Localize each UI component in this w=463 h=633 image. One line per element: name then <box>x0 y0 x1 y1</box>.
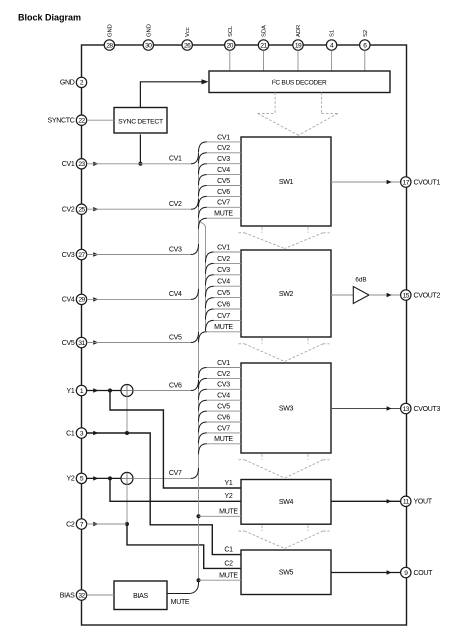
svg-text:25: 25 <box>78 207 85 214</box>
SW2 input CV1 <box>206 244 242 262</box>
svg-text:32: 32 <box>78 592 85 599</box>
SW2 input CV3 <box>206 267 242 285</box>
svg-text:SW5: SW5 <box>279 570 294 577</box>
SW3 input CV6 <box>199 414 242 432</box>
arrowhead CV2 <box>93 207 98 211</box>
wire pin stub to I2C decoder <box>297 50 299 71</box>
SW1 input CV1 <box>199 134 242 152</box>
switch block SW2 <box>241 250 331 337</box>
dashed control arrow SW3 to SW4 <box>239 454 330 478</box>
wire Y input to summer (CV6) <box>87 390 121 392</box>
pin 31 CV5 (left) <box>62 337 87 347</box>
wire Y input to summer (CV7) <box>87 477 121 479</box>
svg-text:20: 20 <box>227 42 234 49</box>
switch block SW5 <box>241 550 331 595</box>
pin 7 C2 (left) <box>66 519 87 529</box>
arrowhead CV5 <box>93 340 98 344</box>
svg-text:30: 30 <box>145 42 152 49</box>
wire summer2 to C2 line <box>126 484 128 524</box>
arrowhead C1 <box>93 431 98 435</box>
svg-text:Block Diagram: Block Diagram <box>18 13 81 23</box>
svg-text:28: 28 <box>106 42 113 49</box>
wire SYNCTC to sync detect <box>87 119 114 121</box>
wire pin stub to I2C decoder <box>331 50 333 71</box>
svg-text:22: 22 <box>78 118 85 125</box>
svg-text:CV3: CV3 <box>62 252 75 259</box>
svg-text:MUTE: MUTE <box>214 436 233 443</box>
svg-text:CV5: CV5 <box>217 178 230 185</box>
svg-text:CV6: CV6 <box>217 189 230 196</box>
svg-text:I2C BUS DECODER: I2C BUS DECODER <box>272 78 327 86</box>
svg-text:CV7: CV7 <box>217 200 230 207</box>
pin 27 CV3 (left) <box>62 249 87 259</box>
svg-text:27: 27 <box>78 252 85 259</box>
pin 26 Vcc (top) <box>182 27 192 50</box>
svg-text:GND: GND <box>146 24 152 37</box>
SW1 input MUTE <box>199 211 242 229</box>
junction Y branch <box>108 389 112 393</box>
arrowhead CV4 <box>93 297 98 301</box>
output wire to pin 9 <box>331 572 401 574</box>
svg-text:Y1: Y1 <box>67 388 75 395</box>
svg-text:Y2: Y2 <box>67 476 75 483</box>
svg-text:MUTE: MUTE <box>214 211 233 218</box>
svg-text:CV7: CV7 <box>217 313 230 320</box>
svg-text:CV2: CV2 <box>217 256 230 263</box>
arrowhead CV3 <box>93 252 98 256</box>
svg-text:BIAS: BIAS <box>60 592 75 599</box>
svg-text:SW1: SW1 <box>279 179 294 186</box>
svg-text:Y2: Y2 <box>225 493 233 500</box>
SW3 input CV4 <box>199 393 242 411</box>
svg-text:CVOUT1: CVOUT1 <box>414 179 441 186</box>
dashed control arrow SW2 to SW3 <box>239 338 330 361</box>
svg-text:CVOUT3: CVOUT3 <box>414 406 441 413</box>
pin 20 SCL (top) <box>225 25 235 50</box>
svg-text:SW2: SW2 <box>279 291 294 298</box>
SW2 input CV4 <box>206 279 242 297</box>
output wire to pin 13 <box>331 408 401 410</box>
svg-text:23: 23 <box>78 161 85 168</box>
SW1 input CV7 <box>199 200 242 218</box>
svg-text:BIAS: BIAS <box>133 593 148 600</box>
svg-text:C1: C1 <box>224 547 233 554</box>
pin 15 CVOUT2 (right) <box>401 290 441 300</box>
SW2 input CV2 <box>206 256 242 274</box>
svg-text:MUTE: MUTE <box>171 599 190 606</box>
SW2 input CV6 <box>206 301 242 319</box>
summing node <box>121 472 133 484</box>
pin 28 GND (top) <box>104 24 114 50</box>
wire pin stub to I2C decoder <box>263 50 265 71</box>
SW3 input CV5 <box>199 404 242 422</box>
SW1 input CV4 <box>199 167 242 185</box>
svg-text:CV4: CV4 <box>217 279 230 286</box>
svg-text:MUTE: MUTE <box>219 572 238 579</box>
pin 1 Y1 (left) <box>67 385 87 395</box>
svg-text:GND: GND <box>60 80 75 87</box>
pin 30 GND (top) <box>143 24 153 50</box>
SW1 input CV6 <box>199 189 242 207</box>
I2C bus decoder box <box>209 71 390 93</box>
switch block SW3 <box>241 363 331 453</box>
svg-text:6dB: 6dB <box>355 277 366 284</box>
SW2 input CV5 <box>206 290 242 308</box>
svg-text:19: 19 <box>295 42 302 49</box>
svg-text:29: 29 <box>78 297 85 304</box>
SW3 input CV7 <box>199 425 242 443</box>
wire merge curve into bus <box>191 289 199 300</box>
dashed control arrow SW4 to SW5 <box>239 525 330 548</box>
svg-text:GND: GND <box>107 24 113 37</box>
svg-text:CV1: CV1 <box>169 156 182 163</box>
dashed control arrow SW1 to SW2 <box>239 227 330 248</box>
sync detect box <box>114 108 167 134</box>
svg-text:CV5: CV5 <box>62 340 75 347</box>
pin 21 SDA (top) <box>258 25 268 50</box>
wire CV1 from pin to bus <box>87 163 192 165</box>
svg-text:CV4: CV4 <box>217 393 230 400</box>
pin 5 Y2 (left) <box>67 473 87 483</box>
svg-text:CV3: CV3 <box>217 156 230 163</box>
svg-text:S1: S1 <box>330 30 336 37</box>
svg-text:15: 15 <box>403 292 410 299</box>
arrowhead C2 <box>93 522 98 526</box>
svg-text:CV3: CV3 <box>169 246 182 253</box>
wire C2 pin line <box>87 523 127 525</box>
svg-text:CV3: CV3 <box>217 382 230 389</box>
pin 25 CV2 (left) <box>62 204 87 214</box>
output wire to pin 11 <box>331 500 401 502</box>
SW1 input CV2 <box>199 145 242 163</box>
svg-text:Vcc: Vcc <box>185 27 191 37</box>
arrowhead CV1 <box>93 162 98 166</box>
SW2 input CV7 <box>206 313 242 331</box>
pin 17 CVOUT1 (right) <box>401 177 441 187</box>
svg-text:CVOUT2: CVOUT2 <box>414 292 441 299</box>
svg-text:SYNC DETECT: SYNC DETECT <box>118 119 163 126</box>
svg-text:CV5: CV5 <box>217 404 230 411</box>
pin 6 S2 (top) <box>360 30 370 50</box>
wire sync detect to I2C decoder <box>140 82 202 108</box>
wire CV2 from pin to bus <box>87 208 192 210</box>
junction on C2 line <box>125 522 129 526</box>
svg-text:MUTE: MUTE <box>214 324 233 331</box>
svg-text:CV2: CV2 <box>169 201 182 208</box>
wire C2 to SW5 <box>127 524 241 568</box>
pin 32 BIAS (left) <box>60 590 87 600</box>
svg-text:CV1: CV1 <box>62 161 75 168</box>
svg-text:C2: C2 <box>66 521 75 528</box>
amplifier 6dB <box>353 277 369 304</box>
bias box <box>114 581 167 610</box>
svg-text:CV4: CV4 <box>62 297 75 304</box>
svg-text:13: 13 <box>403 406 410 413</box>
pin 4 S1 (top) <box>326 30 336 50</box>
svg-text:S2: S2 <box>363 30 369 37</box>
svg-text:11: 11 <box>403 499 410 506</box>
output wire to pin 17 <box>331 181 401 183</box>
summing node <box>121 385 133 397</box>
svg-text:CV1: CV1 <box>217 134 230 141</box>
svg-text:CV6: CV6 <box>169 382 182 389</box>
switch block SW4 <box>241 480 331 525</box>
chip outline <box>82 45 407 625</box>
svg-text:CV4: CV4 <box>169 291 182 298</box>
wire CV5 from pin to bus <box>87 342 192 344</box>
svg-text:SW4: SW4 <box>279 499 294 506</box>
svg-text:26: 26 <box>184 42 191 49</box>
arrowhead Y2 <box>93 476 98 480</box>
svg-text:CV7: CV7 <box>169 470 182 477</box>
svg-text:SCL: SCL <box>228 25 234 37</box>
svg-text:CV4: CV4 <box>217 167 230 174</box>
wire merge curve into bus <box>191 244 199 255</box>
wire merge curve into bus <box>191 468 199 479</box>
svg-text:21: 21 <box>260 42 267 49</box>
svg-text:CV6: CV6 <box>217 301 230 308</box>
SW1 input CV5 <box>199 178 242 196</box>
SW3 input CV2 <box>199 371 242 389</box>
junction Y branch <box>108 476 112 480</box>
svg-text:C1: C1 <box>66 430 75 437</box>
wire sync detect to CV1 line <box>139 134 141 163</box>
pin 3 C1 (left) <box>66 428 87 438</box>
pin 9 COUT (right) <box>401 567 434 577</box>
svg-text:CV3: CV3 <box>217 267 230 274</box>
svg-text:CV1: CV1 <box>217 360 230 367</box>
svg-text:31: 31 <box>78 340 85 347</box>
wire BIAS mute output <box>167 580 199 593</box>
junction on C1 line <box>125 431 129 435</box>
wire merge curve into bus <box>191 332 199 343</box>
svg-text:Y1: Y1 <box>225 480 233 487</box>
wire pin stub to I2C decoder <box>364 50 366 71</box>
arrowhead Y1 <box>93 388 98 392</box>
SW3 input CV3 <box>199 382 242 400</box>
wire BIAS pin to box <box>87 594 114 596</box>
SW2 input MUTE <box>199 324 242 342</box>
wire Y2 branch to SW4 <box>110 478 241 501</box>
svg-text:17: 17 <box>403 179 410 186</box>
svg-text:ADR: ADR <box>296 25 302 37</box>
wire CV3 from pin to bus <box>87 254 192 256</box>
pin 11 YOUT (right) <box>401 496 433 506</box>
svg-text:CV6: CV6 <box>217 414 230 421</box>
svg-text:CV2: CV2 <box>62 207 75 214</box>
pin 2 GND (left) <box>60 77 87 87</box>
pin 23 CV1 (left) <box>62 159 87 169</box>
svg-text:CV7: CV7 <box>217 425 230 432</box>
svg-text:SDA: SDA <box>262 25 268 37</box>
SW3 input CV1 <box>199 360 242 378</box>
wire CV6 summer output to bus <box>133 390 192 392</box>
svg-text:SYNCTC: SYNCTC <box>48 118 75 125</box>
output wire to pin 15 <box>331 294 353 296</box>
wire merge curve into bus <box>191 199 199 210</box>
junction on CV1 line <box>138 162 142 166</box>
pin 19 ADR (top) <box>293 25 303 50</box>
SW5 input MUTE <box>197 572 242 582</box>
wire CV4 from pin to bus <box>87 298 192 300</box>
svg-text:COUT: COUT <box>414 570 434 577</box>
SW1 input CV3 <box>199 156 242 174</box>
svg-text:SW3: SW3 <box>279 405 294 412</box>
bus rail <box>198 152 200 580</box>
svg-text:CV1: CV1 <box>217 244 230 251</box>
svg-text:CV5: CV5 <box>217 290 230 297</box>
SW4 input MUTE <box>197 508 242 518</box>
bus rail SW2 branch <box>199 219 206 331</box>
svg-text:CV2: CV2 <box>217 371 230 378</box>
wire merge curve into bus <box>191 153 199 164</box>
pin 13 CVOUT3 (right) <box>401 403 441 413</box>
SW3 input MUTE <box>199 436 242 454</box>
dashed control arrow I2C to SW1 <box>258 93 338 136</box>
svg-text:YOUT: YOUT <box>414 499 433 506</box>
wire summer1 to C1 line <box>126 396 128 433</box>
svg-text:C2: C2 <box>224 560 233 567</box>
switch block SW1 <box>241 137 331 226</box>
pin 22 SYNCTC (left) <box>48 115 87 125</box>
svg-text:CV2: CV2 <box>217 145 230 152</box>
svg-text:MUTE: MUTE <box>219 508 238 515</box>
wire Y1 branch to SW4 <box>110 391 241 489</box>
pin 29 CV4 (left) <box>62 294 87 304</box>
wire pin stub to I2C decoder <box>229 50 231 71</box>
svg-text:CV5: CV5 <box>169 334 182 341</box>
wire merge curve into bus <box>191 380 199 391</box>
wire CV7 summer output to bus <box>133 477 192 479</box>
wire C1 to SW5 <box>87 433 241 555</box>
